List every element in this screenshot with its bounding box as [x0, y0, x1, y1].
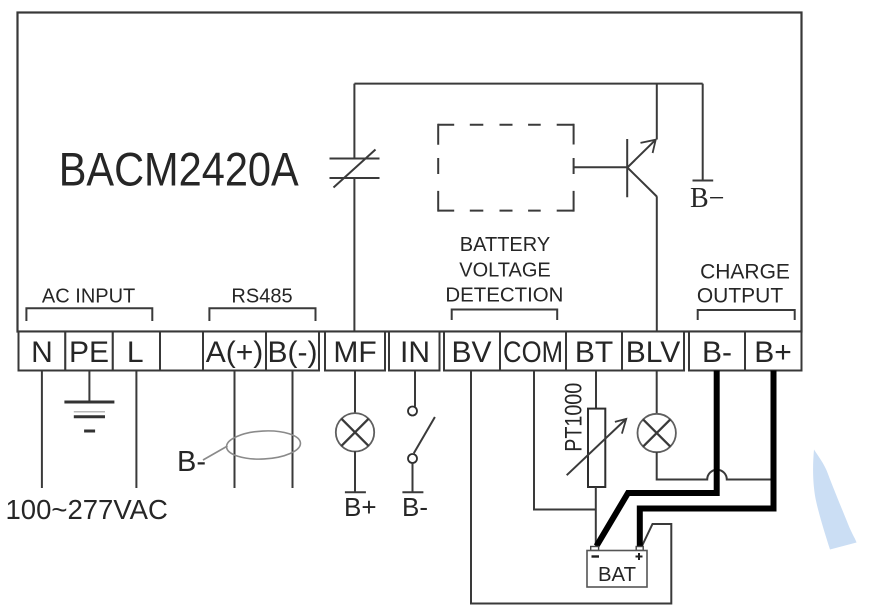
terminal A(+): [203, 332, 266, 371]
node B+ bar: [345, 491, 366, 493]
node B- bar: [693, 180, 714, 182]
wire MF riser: [353, 84, 355, 332]
svg-text:AC INPUT: AC INPUT: [42, 286, 135, 308]
svg-text:IN: IN: [400, 336, 430, 369]
svg-text:PE: PE: [69, 336, 109, 369]
svg-text:B+: B+: [754, 336, 792, 369]
svg-text:BV: BV: [451, 336, 491, 369]
battery minus mark: [592, 555, 600, 557]
battery plus mark: [636, 553, 643, 560]
svg-text:BAT: BAT: [598, 564, 636, 586]
terminal IN: [389, 332, 440, 371]
svg-text:MF: MF: [333, 336, 376, 369]
bracket battery voltage detection: [452, 310, 558, 321]
leader line to B- label: [203, 446, 228, 460]
bracket ac input: [26, 308, 152, 321]
terminal B(-): [266, 332, 319, 371]
wire lamp BLV to B+ with hop: [657, 452, 774, 480]
terminal COM: [500, 332, 566, 371]
terminal B-: [689, 332, 745, 371]
arrow variable sensor: [567, 419, 627, 475]
wire B- drop: [702, 84, 704, 180]
svg-text:B(-): B(-): [268, 336, 318, 369]
svg-text:B−: B−: [690, 183, 724, 214]
svg-text:RS485: RS485: [231, 286, 292, 308]
wire PE down: [88, 371, 90, 403]
switch blade: [414, 417, 435, 453]
wire PT1000 to battery minus: [595, 487, 597, 547]
wire switch to B-: [412, 463, 414, 492]
wire L down: [135, 371, 137, 489]
wire BV battery sense: [471, 371, 671, 604]
switch contact upper: [408, 407, 417, 416]
svg-text:COM: COM: [503, 336, 563, 369]
svg-text:100~277VAC: 100~277VAC: [6, 494, 168, 525]
dashed control block: [438, 124, 573, 212]
wire COM down: [534, 371, 596, 510]
switch contact lower: [408, 454, 417, 463]
terminal blank: [160, 332, 203, 371]
svg-text:BT: BT: [575, 336, 613, 369]
wire IN down: [414, 371, 416, 407]
terminal BLV: [622, 332, 684, 371]
wire B- thick: [597, 371, 717, 547]
device outline BACM2420A module: [18, 13, 802, 332]
lamp BLV indicator: [638, 414, 676, 452]
bracket rs485: [209, 308, 315, 321]
wire A(+) down: [234, 371, 236, 489]
twisted pair loop ellipse: [226, 429, 301, 461]
terminal B+: [745, 332, 802, 371]
svg-text:B-: B-: [177, 446, 206, 478]
lamp MF indicator: [336, 413, 374, 451]
svg-text:PT1000: PT1000: [560, 383, 587, 452]
wire collector riser: [656, 84, 658, 140]
node B- bar under switch: [402, 491, 423, 493]
battery BAT box: [587, 551, 647, 588]
terminal N: [19, 332, 66, 371]
svg-text:A(+): A(+): [206, 336, 264, 369]
wire N down: [41, 371, 43, 489]
svg-text:B+: B+: [344, 492, 377, 522]
battery minus post: [591, 547, 599, 551]
wire B+ thick: [640, 371, 774, 547]
ground earth symbol: [64, 402, 114, 431]
wire lamp to B+: [354, 451, 356, 492]
terminal MF: [325, 332, 385, 371]
svg-text:DETECTION: DETECTION: [445, 285, 563, 307]
wire emitter to BLV: [656, 196, 658, 331]
svg-text:BLV: BLV: [626, 336, 680, 369]
wire top bus: [354, 83, 702, 85]
wire B(-) down: [292, 371, 294, 489]
wire BLV down: [656, 371, 658, 415]
transistor Q1: [574, 139, 657, 197]
watermark: [813, 450, 856, 550]
resistor PT1000: [588, 409, 605, 487]
svg-text:CHARGE: CHARGE: [700, 261, 790, 284]
svg-text:B-: B-: [702, 336, 732, 369]
svg-text:N: N: [31, 336, 53, 369]
chopper symbol on MF riser: [330, 150, 380, 188]
svg-text:B-: B-: [402, 492, 428, 522]
wire MF down: [354, 371, 356, 414]
wire BT down: [595, 371, 597, 409]
svg-text:BATTERY: BATTERY: [460, 234, 550, 256]
terminal PE: [65, 332, 113, 371]
terminal BT: [566, 332, 622, 371]
svg-text:L: L: [127, 336, 144, 369]
svg-text:OUTPUT: OUTPUT: [697, 285, 784, 308]
terminal L: [113, 332, 160, 371]
svg-text:VOLTAGE: VOLTAGE: [459, 259, 551, 281]
bracket charge output: [698, 310, 795, 320]
battery plus post: [636, 547, 643, 551]
svg-text:BACM2420A: BACM2420A: [59, 143, 300, 196]
terminal BV: [444, 332, 500, 371]
